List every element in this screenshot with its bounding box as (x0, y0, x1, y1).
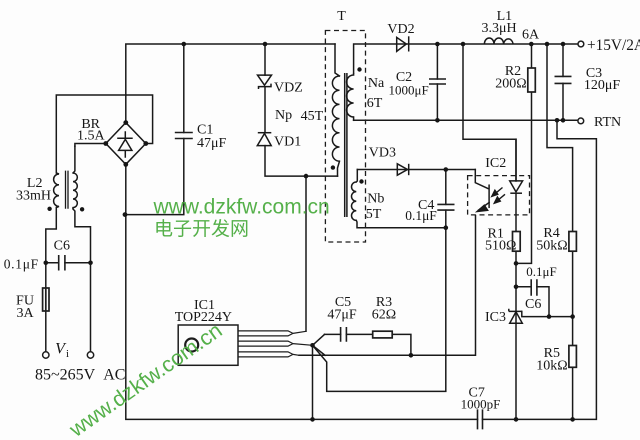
svg-text:47μF: 47μF (197, 136, 227, 151)
svg-text:6T: 6T (367, 96, 383, 111)
svg-text:33mH: 33mH (16, 189, 51, 204)
svg-text:47μF: 47μF (327, 308, 357, 323)
svg-text:5T: 5T (366, 207, 382, 222)
svg-text:1000pF: 1000pF (461, 397, 501, 412)
svg-text:62Ω: 62Ω (372, 308, 396, 323)
svg-text:1000μF: 1000μF (389, 83, 429, 98)
svg-text:45T: 45T (301, 109, 324, 124)
svg-text:10kΩ: 10kΩ (536, 359, 567, 374)
svg-text:C6: C6 (525, 297, 541, 312)
svg-text:VD1: VD1 (274, 135, 301, 150)
svg-text:3.3μH: 3.3μH (482, 21, 517, 36)
svg-text:Nb: Nb (367, 192, 384, 207)
svg-text:6A: 6A (522, 28, 540, 43)
svg-text:RTN: RTN (594, 115, 621, 130)
svg-text:VDZ: VDZ (274, 81, 303, 96)
svg-text:0.1μF: 0.1μF (405, 208, 437, 223)
svg-text:85~265V AC: 85~265V AC (35, 367, 125, 384)
svg-text:www.dzkfw.com.cn: www.dzkfw.com.cn (153, 196, 330, 219)
svg-text:1.5A: 1.5A (77, 129, 106, 144)
svg-text:电子开发网: 电子开发网 (154, 218, 249, 240)
svg-text:Np: Np (275, 108, 292, 123)
svg-text:Na: Na (368, 76, 385, 91)
svg-text:0.1μF: 0.1μF (4, 257, 39, 272)
svg-text:IC3: IC3 (485, 310, 506, 325)
svg-text:510Ω: 510Ω (485, 239, 516, 254)
svg-text:3A: 3A (16, 306, 34, 321)
svg-text:200Ω: 200Ω (495, 77, 526, 92)
svg-text:VD2: VD2 (387, 22, 414, 37)
svg-text:C6: C6 (54, 239, 70, 254)
svg-text:+15V/2A: +15V/2A (587, 37, 640, 54)
svg-text:0.1μF: 0.1μF (526, 264, 556, 279)
svg-text:VD3: VD3 (369, 146, 396, 161)
svg-text:IC2: IC2 (485, 156, 506, 171)
svg-text:i: i (66, 348, 69, 360)
svg-text:50kΩ: 50kΩ (536, 239, 567, 254)
svg-text:TOP224Y: TOP224Y (175, 310, 232, 325)
svg-text:T: T (337, 9, 346, 24)
svg-text:120μF: 120μF (584, 78, 621, 93)
